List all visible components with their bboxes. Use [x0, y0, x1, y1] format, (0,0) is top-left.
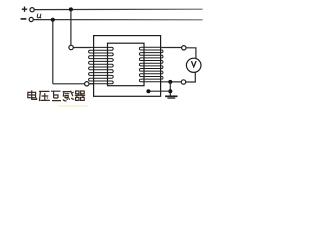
wire ground drop: [169, 82, 171, 96]
terminal circle secondary top: [182, 46, 186, 50]
secondary winding w (right limb coil): [139, 47, 163, 81]
junction J3 secondary bottom: [168, 80, 172, 84]
电: [28, 90, 37, 99]
voltmeter PV: [186, 58, 201, 72]
wire H2 to primary top: [73, 47, 90, 49]
terminal circle secondary bottom: [181, 80, 185, 84]
label 电压互感器 (voltage transformer), drawn glyphs: [28, 90, 85, 100]
junction J2 on W1: [69, 7, 73, 11]
感: [63, 91, 74, 101]
label u (source voltage): [37, 14, 41, 18]
wire core ground link: [148, 90, 170, 92]
wire H1 to primary bottom: [53, 83, 85, 85]
terminal circle (+ input): [30, 8, 34, 12]
wire H1b into transformer: [89, 83, 94, 85]
压: [39, 91, 49, 100]
label - (negative input): [21, 18, 27, 20]
terminal circle (- input): [29, 17, 33, 21]
wire V2 vertical drop from J2: [70, 9, 72, 45]
互: [51, 91, 61, 100]
label + (positive input): [22, 7, 27, 12]
wire W2 lower (-) rail: [33, 19, 202, 21]
transformer core outer rectangle: [94, 36, 161, 97]
junction J4 ground tap: [168, 89, 172, 93]
junction J1 on W2: [51, 18, 55, 22]
ground symbol: [165, 96, 177, 98]
wire secondary top to voltmeter: [161, 48, 196, 59]
wire W1 top (+) rail: [34, 8, 202, 10]
scan artifact streak: [58, 105, 88, 107]
terminal circle primary top: [69, 45, 73, 49]
junction J5 core tap: [146, 89, 150, 93]
transformer core inner rectangle (window): [108, 43, 145, 85]
primary winding W (left limb coil): [89, 47, 114, 83]
wire voltmeter bottom: [186, 72, 195, 82]
wire V1 vertical drop from J1: [52, 20, 54, 84]
器: [75, 91, 85, 100]
wire secondary bottom: [161, 81, 181, 83]
terminal circle primary bottom: [85, 82, 89, 86]
